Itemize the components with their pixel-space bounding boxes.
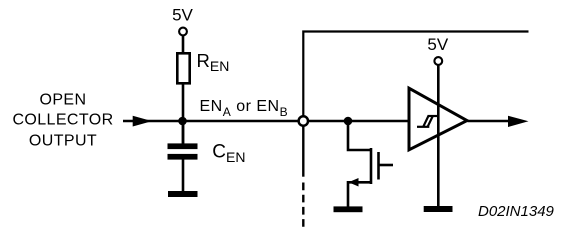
wire: buffer output (468, 120, 511, 123)
hysteresis symbol (417, 116, 437, 127)
wire: node up to top rail and rail right (303, 32, 528, 117)
wire: dashed continuation (302, 183, 304, 228)
wire: EN node to capacitor (182, 121, 185, 145)
label OPEN COLLECTOR OUTPUT (12, 92, 113, 150)
svg-text:5V: 5V (172, 6, 193, 25)
svg-text:OUTPUT: OUTPUT (29, 132, 97, 149)
svg-text:D02IN1349: D02IN1349 (478, 203, 555, 220)
resistor R_EN (177, 53, 189, 83)
gate bar (377, 152, 380, 180)
wire: main horizontal EN net (123, 120, 409, 123)
op-amp U1 (schmitt trigger buffer) (409, 88, 467, 150)
capacitor C_EN (168, 143, 198, 159)
svg-text:ENA or ENB: ENA or ENB (200, 98, 289, 119)
channel bar (370, 148, 373, 184)
svg-text:CEN: CEN (212, 142, 245, 165)
wire: solid drop below EN pin node (302, 127, 304, 177)
output arrowhead (508, 116, 529, 127)
5V terminal (right) (434, 57, 442, 65)
source arrowhead (349, 178, 359, 187)
open-collector input arrow (133, 116, 152, 127)
ground (MOSFET) (334, 206, 363, 212)
svg-text:REN: REN (197, 50, 230, 74)
svg-text:5V: 5V (427, 35, 448, 54)
junction dot at EN node (178, 117, 187, 126)
junction dot (gate tap) (344, 117, 353, 126)
svg-text:COLLECTOR: COLLECTOR (12, 112, 113, 129)
node circle EN pin (299, 116, 308, 125)
svg-text:OPEN: OPEN (40, 92, 87, 109)
source lead (348, 182, 371, 207)
wire: drain lead from EN net (348, 121, 371, 150)
ground (buffer) (424, 206, 453, 212)
gate lead (379, 164, 394, 167)
transistor Q1 (protection MOSFET) (348, 121, 393, 207)
5V terminal (left) (179, 28, 187, 36)
wire: capacitor to ground (182, 158, 185, 192)
wire: 5V terminal to resistor (182, 36, 185, 55)
wire: supply through buffer to ground (437, 65, 440, 206)
wire: resistor to EN node (182, 84, 185, 146)
ground (capacitor) (168, 191, 198, 197)
